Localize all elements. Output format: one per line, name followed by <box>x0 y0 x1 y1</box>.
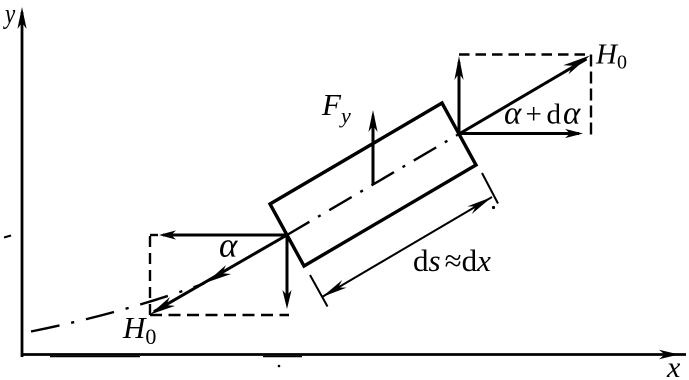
H0 arrow upper-right <box>563 56 590 75</box>
dashed box lower-left: top stub <box>150 234 158 236</box>
node B (upper-right joint) <box>459 59 587 134</box>
cable element rectangle <box>270 103 476 266</box>
dashed box lower-left: left side <box>149 236 151 315</box>
Hx component arrow (left) <box>159 230 287 239</box>
node A (lower-left joint) <box>154 235 287 312</box>
Fy load arrow <box>368 110 377 184</box>
dashed box upper-right: top side <box>459 53 591 55</box>
svg-text:ds≈dx: ds≈dx <box>413 243 491 278</box>
dimension line ds <box>322 197 492 297</box>
element centerline (dash-dot) <box>287 134 459 235</box>
svg-text:x: x <box>666 351 681 380</box>
stray speck below x axis <box>278 365 281 368</box>
H0 lower mid arrowhead <box>206 265 231 283</box>
dashed box lower-left: bottom side <box>150 314 289 316</box>
svg-text:y: y <box>2 0 15 30</box>
svg-text:α: α <box>219 226 238 265</box>
cable curve (dash-dot) <box>31 284 204 332</box>
dimension extension tick lower <box>310 275 328 307</box>
Hx component arrow (right) <box>459 129 583 138</box>
Fy component arrow (up) <box>454 56 463 134</box>
x axis <box>21 350 686 360</box>
dimension extension tick upper <box>482 173 498 204</box>
stray dot near upper tick <box>492 206 495 209</box>
Fy shear component arrow (down) <box>282 235 291 309</box>
dashed box upper-right: right side <box>590 55 592 137</box>
H0 arrow lower-left <box>150 297 175 315</box>
stray tick left margin <box>4 236 11 238</box>
y axis <box>17 7 26 357</box>
